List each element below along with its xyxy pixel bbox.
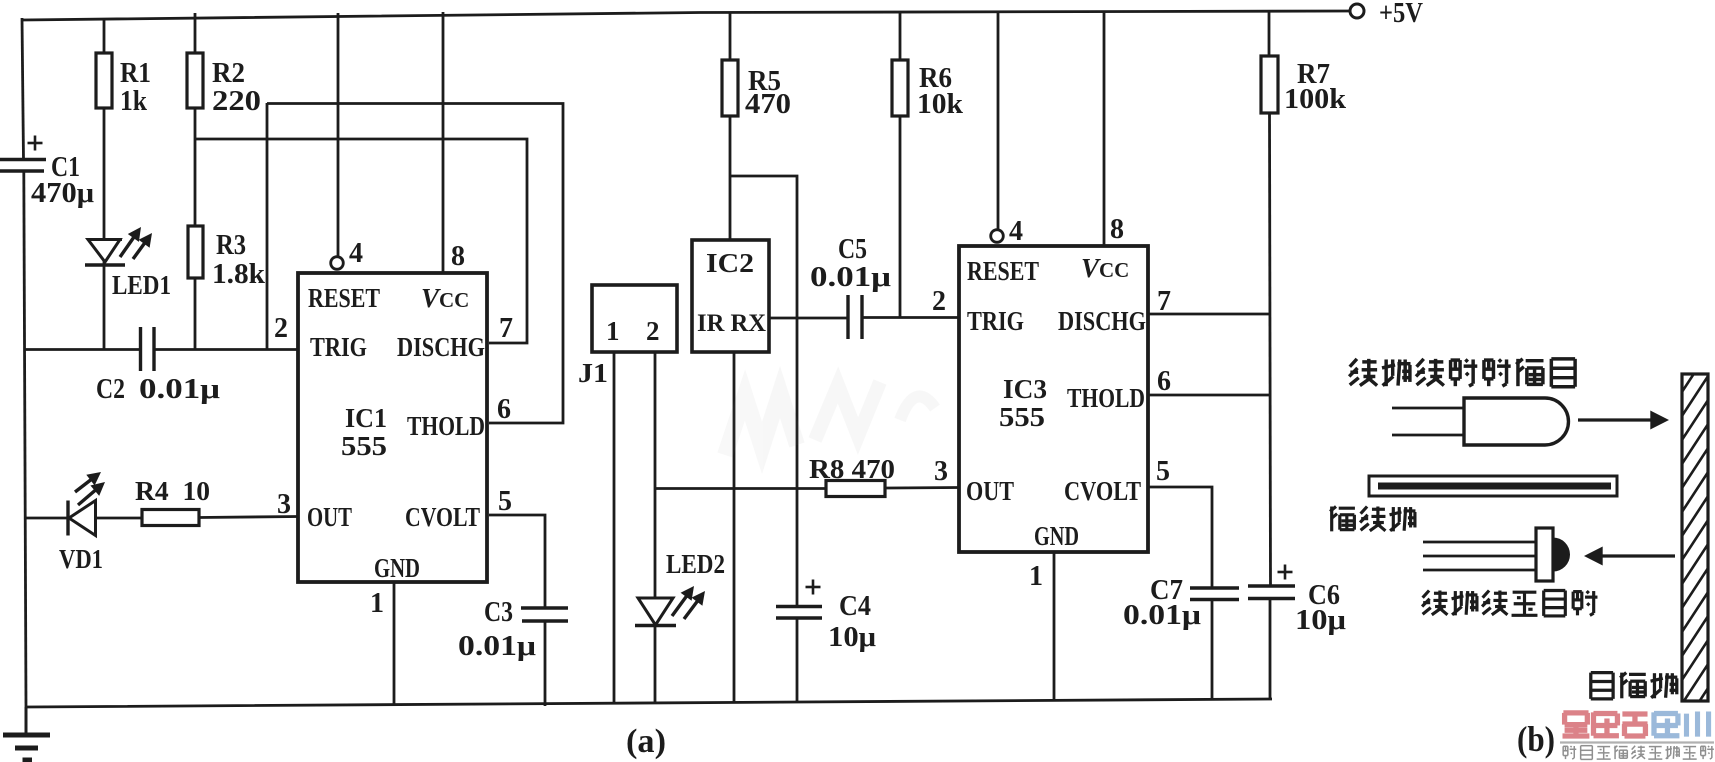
svg-text:RESET: RESET: [308, 283, 380, 313]
isolator bar: [1369, 476, 1617, 496]
svg-text:220: 220: [212, 86, 261, 117]
svg-text:J1: J1: [578, 358, 608, 388]
wire: [24, 171, 26, 708]
wire: [862, 316, 959, 319]
svg-text:VD1: VD1: [59, 544, 103, 574]
wire: [195, 139, 527, 343]
svg-text:C3: C3: [484, 597, 513, 628]
svg-text:THOLD: THOLD: [407, 411, 485, 441]
capacitor C3: [521, 606, 568, 609]
timer IC1 555: [298, 273, 487, 582]
svg-text:470: 470: [745, 89, 791, 120]
svg-text:1: 1: [1029, 561, 1043, 592]
label 红外线发射二极管: [1350, 359, 1357, 367]
svg-text:R3: R3: [216, 230, 246, 261]
resistor R8: [655, 487, 826, 490]
ground rail: [26, 699, 1272, 707]
diode VD1: [24, 517, 68, 520]
svg-text:C4: C4: [839, 591, 871, 622]
svg-text:(b): (b): [1517, 719, 1555, 759]
resistor R3: [188, 226, 203, 278]
pin 4 (RESET) of IC3: [997, 11, 1000, 230]
svg-text:C5: C5: [838, 234, 867, 265]
wire (IC2 gnd): [733, 352, 736, 702]
svg-text:7: 7: [499, 313, 513, 344]
svg-text:10μ: 10μ: [828, 622, 876, 653]
wire: [654, 625, 657, 702]
LED LED1: [103, 240, 106, 350]
svg-text:IC1: IC1: [345, 403, 387, 433]
svg-text:6: 6: [497, 394, 511, 425]
wire: [267, 104, 563, 424]
pin 8 (VCC) of IC3: [1103, 11, 1106, 246]
svg-text:8: 8: [451, 241, 465, 272]
IR receiver drawing: [1423, 541, 1536, 544]
capacitor C4: [776, 605, 822, 608]
resistor R7: [1268, 11, 1271, 56]
svg-text:0.01μ: 0.01μ: [1123, 600, 1201, 631]
svg-text:IC3: IC3: [1003, 374, 1047, 404]
svg-text:GND: GND: [1034, 521, 1079, 551]
svg-text:(a): (a): [626, 723, 666, 760]
svg-text:0.01μ: 0.01μ: [139, 374, 220, 405]
svg-text:1: 1: [370, 588, 384, 619]
timer IC3 555: [959, 246, 1148, 552]
svg-text:555: 555: [341, 431, 387, 461]
svg-text:8: 8: [1110, 214, 1124, 245]
svg-text:100k: 100k: [1284, 84, 1346, 115]
wire: [613, 352, 616, 702]
scan ghost (decorative): [725, 382, 935, 455]
svg-text:C2: C2: [96, 374, 125, 405]
svg-text:R4 10: R4 10: [135, 476, 210, 506]
wire (IC3 GND): [1053, 552, 1056, 701]
capacitor C7: [1190, 586, 1239, 589]
arrow (received beam): [1596, 554, 1675, 557]
svg-text:1k: 1k: [120, 86, 147, 117]
svg-text:TRIG: TRIG: [310, 332, 367, 362]
svg-text:6: 6: [1157, 366, 1171, 397]
svg-text:TRIG: TRIG: [967, 306, 1024, 336]
resistor R4: [95, 517, 142, 520]
svg-text:LED2: LED2: [666, 549, 725, 579]
svg-text:DISCHG: DISCHG: [1058, 306, 1146, 336]
label 隔离物: [1330, 507, 1333, 532]
svg-text:2: 2: [932, 286, 946, 317]
wire (IC1 GND): [393, 582, 396, 706]
svg-text:RESET: RESET: [967, 256, 1039, 286]
svg-text:OUT: OUT: [966, 476, 1014, 506]
pin 4 (RESET) of IC1: [337, 13, 340, 257]
pin 8 (VCC) of IC1: [442, 12, 445, 273]
svg-text:IC2: IC2: [706, 248, 754, 278]
svg-text:OUT: OUT: [307, 502, 352, 532]
svg-text:GND: GND: [374, 553, 420, 583]
svg-text:7: 7: [1157, 286, 1171, 317]
svg-text:VCC: VCC: [1081, 253, 1129, 283]
wire (pin5 IC3): [1148, 487, 1212, 588]
+5V terminal: [1350, 4, 1364, 18]
svg-text:DISCHG: DISCHG: [397, 332, 485, 362]
label 红外线接收头: [1423, 591, 1429, 598]
svg-text:CVOLT: CVOLT: [1064, 476, 1141, 506]
capacitor C5: [846, 295, 849, 339]
arrow (emitted beam): [1578, 418, 1657, 421]
svg-text:1: 1: [606, 316, 620, 346]
svg-text:5: 5: [498, 486, 512, 517]
svg-text:VCC: VCC: [421, 283, 469, 313]
svg-text:3: 3: [934, 456, 948, 487]
svg-text:555: 555: [999, 402, 1045, 432]
svg-text:LED1: LED1: [112, 270, 171, 300]
resistor R2: [194, 13, 197, 53]
wire: [730, 176, 797, 607]
svg-text:10μ: 10μ: [1295, 605, 1346, 636]
svg-text:+5V: +5V: [1379, 0, 1423, 29]
svg-text:2: 2: [646, 316, 660, 346]
wire (IC2 out): [769, 317, 849, 320]
resistor R5: [729, 12, 732, 60]
svg-text:470μ: 470μ: [31, 178, 94, 209]
svg-text:R8 470: R8 470: [809, 454, 895, 484]
wire: [654, 352, 657, 489]
svg-text:1.8k: 1.8k: [212, 259, 265, 290]
LED LED2: [654, 489, 657, 597]
+5V power rail: [22, 11, 1350, 20]
label 阻挡物: [1591, 671, 1613, 674]
svg-text:10k: 10k: [917, 89, 963, 120]
svg-text:4: 4: [349, 238, 363, 269]
watermark logo: [1563, 710, 1588, 715]
wire (pin6 IC3): [1148, 394, 1270, 397]
svg-text:R1: R1: [120, 58, 151, 89]
capacitor C6: [1248, 584, 1295, 587]
svg-text:0.01μ: 0.01μ: [810, 262, 891, 293]
svg-text:CVOLT: CVOLT: [405, 502, 480, 532]
wire (pin7 IC3): [1148, 313, 1270, 316]
svg-text:THOLD: THOLD: [1067, 383, 1145, 413]
svg-text:2: 2: [274, 313, 288, 344]
IR emitting diode drawing: [1392, 407, 1464, 410]
svg-text:R2: R2: [212, 58, 245, 89]
wire: [266, 103, 269, 350]
svg-text:4: 4: [1009, 216, 1023, 247]
svg-text:IR RX: IR RX: [697, 310, 766, 337]
resistor R6: [899, 12, 902, 60]
svg-text:0.01μ: 0.01μ: [458, 631, 536, 662]
capacitor C1: [0, 158, 46, 161]
wire: [22, 18, 24, 160]
node TRIG wire: [24, 348, 141, 351]
connector J1: [592, 285, 677, 352]
capacitor C2: [139, 327, 142, 371]
resistor R1: [103, 18, 106, 53]
ground: [25, 707, 28, 735]
svg-text:5: 5: [1156, 456, 1170, 487]
wire: [489, 515, 545, 608]
IC IC2 (IR RX): [692, 240, 769, 352]
